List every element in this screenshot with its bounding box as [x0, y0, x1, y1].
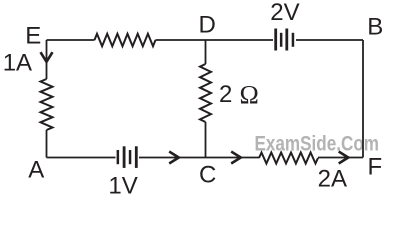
- wire D down to resistor R3 (middle branch): [205, 40, 207, 64]
- resistor R3 2 ohm (between D and C): [200, 64, 211, 122]
- svg-text:E: E: [25, 22, 41, 49]
- svg-text:1A: 1A: [3, 49, 32, 76]
- svg-text:2: 2: [219, 81, 232, 108]
- svg-text:1V: 1V: [108, 173, 137, 197]
- svg-text:D: D: [199, 12, 216, 39]
- resistor R1 (between E and D, top wire): [95, 34, 156, 46]
- wire R4 to F: [318, 157, 363, 159]
- wire R2 to A: [46, 130, 48, 158]
- resistor R4 (between C and F, bottom wire): [259, 153, 318, 164]
- current arrow 2A (pointing right): [340, 152, 349, 163]
- resistor R2 (between E and A, left side): [41, 79, 53, 130]
- wire B to F (right side): [362, 40, 364, 158]
- svg-text:2V: 2V: [270, 0, 299, 26]
- wire A to battery 1V (bottom left): [47, 157, 116, 159]
- battery 1V (tall plate): [123, 146, 126, 168]
- wire C to resistor R4 (bottom right): [206, 157, 260, 159]
- wire R1 to D: [156, 39, 206, 41]
- wire D to battery 2V: [206, 39, 274, 41]
- svg-text:F: F: [368, 154, 383, 181]
- svg-text:Ω: Ω: [240, 80, 259, 109]
- battery 2V (tall plate): [285, 29, 288, 51]
- svg-text:A: A: [28, 157, 44, 184]
- wire battery 2V to B: [296, 39, 363, 41]
- battery 2V (short plate): [280, 33, 283, 47]
- battery 1V (short plate): [129, 150, 132, 164]
- battery 2V (short plate): [292, 33, 295, 47]
- current arrow between C and R4 (pointing right): [232, 152, 241, 163]
- battery 1V (short plate): [117, 150, 120, 164]
- svg-text:ExamSide.Com: ExamSide.Com: [255, 132, 380, 155]
- current arrow between 1V and C (pointing right): [170, 152, 179, 163]
- wire E to resistor R1 (top left): [47, 39, 95, 41]
- svg-text:B: B: [367, 14, 383, 41]
- battery 1V (tall plate): [135, 146, 138, 168]
- wire E down to resistor R2 (left side): [46, 40, 48, 79]
- wire battery 1V to C: [139, 157, 206, 159]
- battery 2V (tall plate): [274, 29, 277, 51]
- current arrow 1A (pointing down): [41, 53, 52, 62]
- wire R3 to C: [205, 122, 207, 158]
- svg-text:C: C: [199, 162, 216, 189]
- svg-text:2A: 2A: [318, 165, 347, 192]
